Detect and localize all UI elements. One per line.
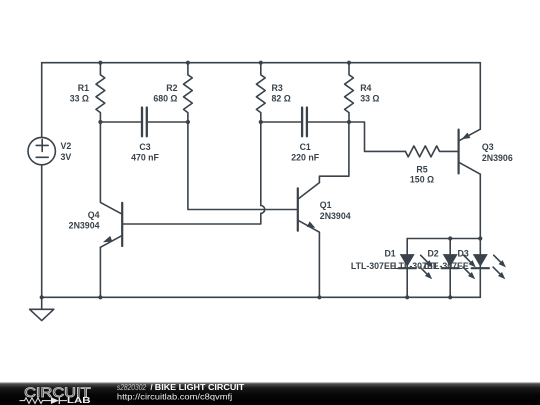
svg-text:2N3904: 2N3904 bbox=[320, 211, 351, 221]
node dot R1 bottom bbox=[98, 120, 102, 124]
wire R4 node to R5 bbox=[349, 122, 405, 151]
svg-text:V2: V2 bbox=[61, 141, 72, 151]
capacitor C3 bbox=[142, 108, 147, 137]
svg-text:D3: D3 bbox=[458, 249, 469, 259]
svg-text:82 Ω: 82 Ω bbox=[272, 94, 291, 104]
node dot R3 bottom bbox=[259, 120, 263, 124]
wire Q4 emitter down bbox=[99, 247, 101, 297]
wire hop over bbox=[261, 206, 265, 214]
node dot R2 bottom bbox=[186, 120, 190, 124]
wire C3 left bbox=[100, 121, 142, 123]
node dot D1 bottom bbox=[405, 295, 409, 299]
wire Q4 base riser bbox=[260, 122, 262, 206]
svg-text:220 nF: 220 nF bbox=[291, 153, 319, 163]
LED D3 bbox=[472, 239, 506, 298]
svg-text:D2: D2 bbox=[427, 249, 438, 259]
wire Q3 collector down bbox=[479, 174, 481, 238]
svg-text:470 nF: 470 nF bbox=[131, 153, 159, 163]
svg-text:33 Ω: 33 Ω bbox=[360, 94, 379, 104]
logo resistor bbox=[20, 398, 51, 404]
node dot D2 top bbox=[448, 236, 452, 240]
transistor Q3 bbox=[459, 129, 481, 174]
svg-text:33 Ω: 33 Ω bbox=[70, 94, 89, 104]
node dot R2 top bbox=[186, 61, 190, 65]
node dot ground bbox=[40, 295, 44, 299]
ground bbox=[30, 297, 54, 320]
wire left rail upper bbox=[41, 63, 43, 138]
wire top rail bbox=[42, 62, 481, 64]
wire Q1 base bbox=[188, 122, 298, 210]
node dot Q1 emitter bbox=[317, 295, 321, 299]
svg-text:680 Ω: 680 Ω bbox=[153, 94, 177, 104]
svg-text:C3: C3 bbox=[139, 142, 150, 152]
svg-text:LTL-307EE: LTL-307EE bbox=[351, 261, 396, 271]
node dot R4 top bbox=[347, 61, 351, 65]
wire C3 right bbox=[147, 121, 188, 123]
svg-text:http://circuitlab.com/c8qvmfj: http://circuitlab.com/c8qvmfj bbox=[117, 392, 232, 402]
node dot R4 bottom bbox=[347, 120, 351, 124]
voltage source V2 bbox=[28, 137, 55, 164]
transistor Q4 bbox=[100, 203, 122, 248]
LED D1 bbox=[399, 239, 433, 298]
svg-text:LTL-307EE: LTL-307EE bbox=[424, 261, 469, 271]
svg-text:2N3904: 2N3904 bbox=[69, 220, 100, 230]
resistor R5 bbox=[405, 146, 458, 157]
LED D2 bbox=[442, 239, 476, 298]
resistor R1 bbox=[96, 63, 105, 122]
svg-text:D1: D1 bbox=[384, 249, 395, 259]
resistor R2 bbox=[184, 63, 193, 122]
node dot R1 top bbox=[98, 61, 102, 65]
svg-text:R4: R4 bbox=[360, 83, 371, 93]
node dot Q4 emitter bbox=[98, 295, 102, 299]
svg-text:Q3: Q3 bbox=[482, 142, 494, 152]
svg-text:C1: C1 bbox=[300, 142, 311, 152]
wire C1 left bbox=[261, 121, 302, 123]
svg-text:3V: 3V bbox=[61, 152, 72, 162]
svg-text:R3: R3 bbox=[272, 83, 283, 93]
wire C1 right bbox=[307, 121, 349, 123]
wire Q4 collector bbox=[100, 122, 122, 214]
capacitor C1 bbox=[302, 108, 307, 137]
wire bottom rail bbox=[42, 296, 481, 298]
wire LED top rail bbox=[407, 238, 480, 240]
node dot D3 top bbox=[478, 236, 482, 240]
logo diode bbox=[51, 397, 59, 404]
wire left rail lower bbox=[41, 165, 43, 297]
wire Q1 emitter down bbox=[318, 232, 320, 297]
resistor R4 bbox=[345, 63, 354, 122]
svg-text:LAB: LAB bbox=[67, 396, 91, 405]
svg-text:R2: R2 bbox=[166, 83, 177, 93]
wire Q3 emitter up bbox=[479, 63, 481, 130]
svg-text:150 Ω: 150 Ω bbox=[410, 175, 434, 185]
svg-text:Q4: Q4 bbox=[88, 210, 100, 220]
svg-text:Q1: Q1 bbox=[320, 200, 332, 210]
svg-text:R1: R1 bbox=[78, 83, 89, 93]
wire Q1 collector bbox=[319, 122, 349, 183]
resistor R3 bbox=[256, 63, 265, 122]
wire Q4 base bbox=[122, 213, 261, 224]
node dot R3 top bbox=[259, 61, 263, 65]
node dot D2 bottom bbox=[448, 295, 452, 299]
transistor Q1 bbox=[298, 183, 320, 233]
svg-text:2N3906: 2N3906 bbox=[482, 153, 513, 163]
svg-text:R5: R5 bbox=[416, 164, 427, 174]
